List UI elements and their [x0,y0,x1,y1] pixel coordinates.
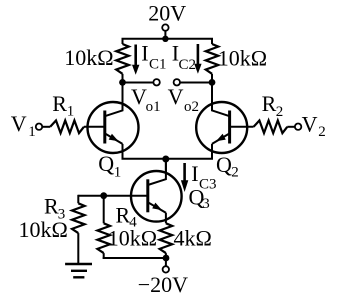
svg-text:R: R [44,194,59,219]
svg-text:−20V: −20V [138,272,188,297]
svg-text:R: R [116,203,131,228]
svg-text:10kΩ: 10kΩ [218,46,267,71]
transistor Q1 [88,83,139,154]
ground [65,264,92,277]
wire: R3 top bend to Q3 base [78,195,148,197]
wire: left collector column above resistor [122,39,124,44]
current arrow IC1 [132,45,139,75]
wire: bottom rail [103,257,166,259]
svg-text:2: 2 [276,104,284,120]
wire: R3 vertical top [77,195,79,204]
current arrow IC2 [194,44,201,74]
wire: Q3 emitter down [165,213,167,224]
svg-text:C1: C1 [149,57,167,73]
terminal: +20V [162,24,168,30]
wire: R4 to bottom rail [103,253,105,259]
svg-text:1: 1 [67,103,75,119]
svg-text:3: 3 [202,196,210,212]
svg-text:o1: o1 [146,99,161,115]
svg-text:1: 1 [114,164,122,180]
svg-text:I: I [141,41,148,66]
wire: Vo2 node to output terminal [180,82,212,84]
wire: Q1 emitter down [122,144,124,159]
node: top rail center [162,36,168,42]
wire: Q2 collector [211,83,213,111]
resistor 10k left (top) [116,44,129,74]
svg-text:V: V [11,111,27,136]
wire: left column resistor to Vo1 node [122,74,124,83]
svg-text:R: R [52,91,67,116]
svg-text:10kΩ: 10kΩ [108,226,157,251]
wire: Q3 collector column [165,159,167,181]
wire: Q1 collector [122,83,124,111]
svg-text:2: 2 [231,165,239,181]
resistor 10k right (top) [206,44,219,74]
wire: 20V terminal to top rail [164,31,166,39]
svg-text:20V: 20V [148,0,186,25]
wire: 4k to bottom rail [165,253,167,258]
terminal: V2 [295,124,301,130]
terminal: Vo2 [174,79,180,85]
terminal: Vo1 [153,79,159,85]
svg-text:I: I [191,161,198,186]
wire: top supply rail [122,38,214,40]
resistor R2 [254,121,288,134]
wire: R4 vertical top [103,196,105,224]
wire: R1 terminal lead [43,126,51,128]
svg-text:2: 2 [318,124,326,140]
svg-text:Q: Q [216,152,232,177]
svg-text:V: V [302,112,318,137]
transistor Q3 [131,159,182,222]
node: bottom rail [163,255,170,262]
svg-text:1: 1 [28,124,36,140]
wire: Q2 emitter down [211,144,213,159]
svg-text:V: V [168,84,184,109]
wire: bottom rail to -20V terminal [165,258,167,266]
resistor 4k [160,223,173,253]
svg-text:C2: C2 [179,57,197,73]
terminal: -20V [163,266,169,272]
resistor R4 [97,223,110,253]
resistor R3 [72,203,85,233]
transistor Q2 [196,83,247,154]
terminal: V1 [36,124,42,130]
wire: R3 to ground [77,233,79,264]
wire: R2 to V2 terminal [287,126,294,128]
wire: Vo1 node to output terminal [123,82,154,84]
svg-text:10kΩ: 10kΩ [19,217,68,242]
wire: right column resistor to Vo2 node [211,74,213,83]
node: emitter rail center [162,156,169,163]
svg-text:Q: Q [98,151,114,176]
current arrow IC3 [181,163,188,192]
node: R4 top [100,192,107,199]
wire: R1 to Q1 base [84,126,105,128]
svg-text:o2: o2 [184,99,199,115]
wire: Q2 base to R2 [230,126,254,128]
resistor R1 [50,121,84,134]
svg-text:4kΩ: 4kΩ [174,225,212,250]
svg-text:R: R [262,91,277,116]
node: Vo2 [209,79,216,86]
node: Vo1 [119,79,126,86]
wire: emitter rail [122,158,214,160]
svg-text:V: V [131,84,147,109]
svg-text:10kΩ: 10kΩ [64,45,113,70]
wire: right collector column above resistor [211,39,213,44]
